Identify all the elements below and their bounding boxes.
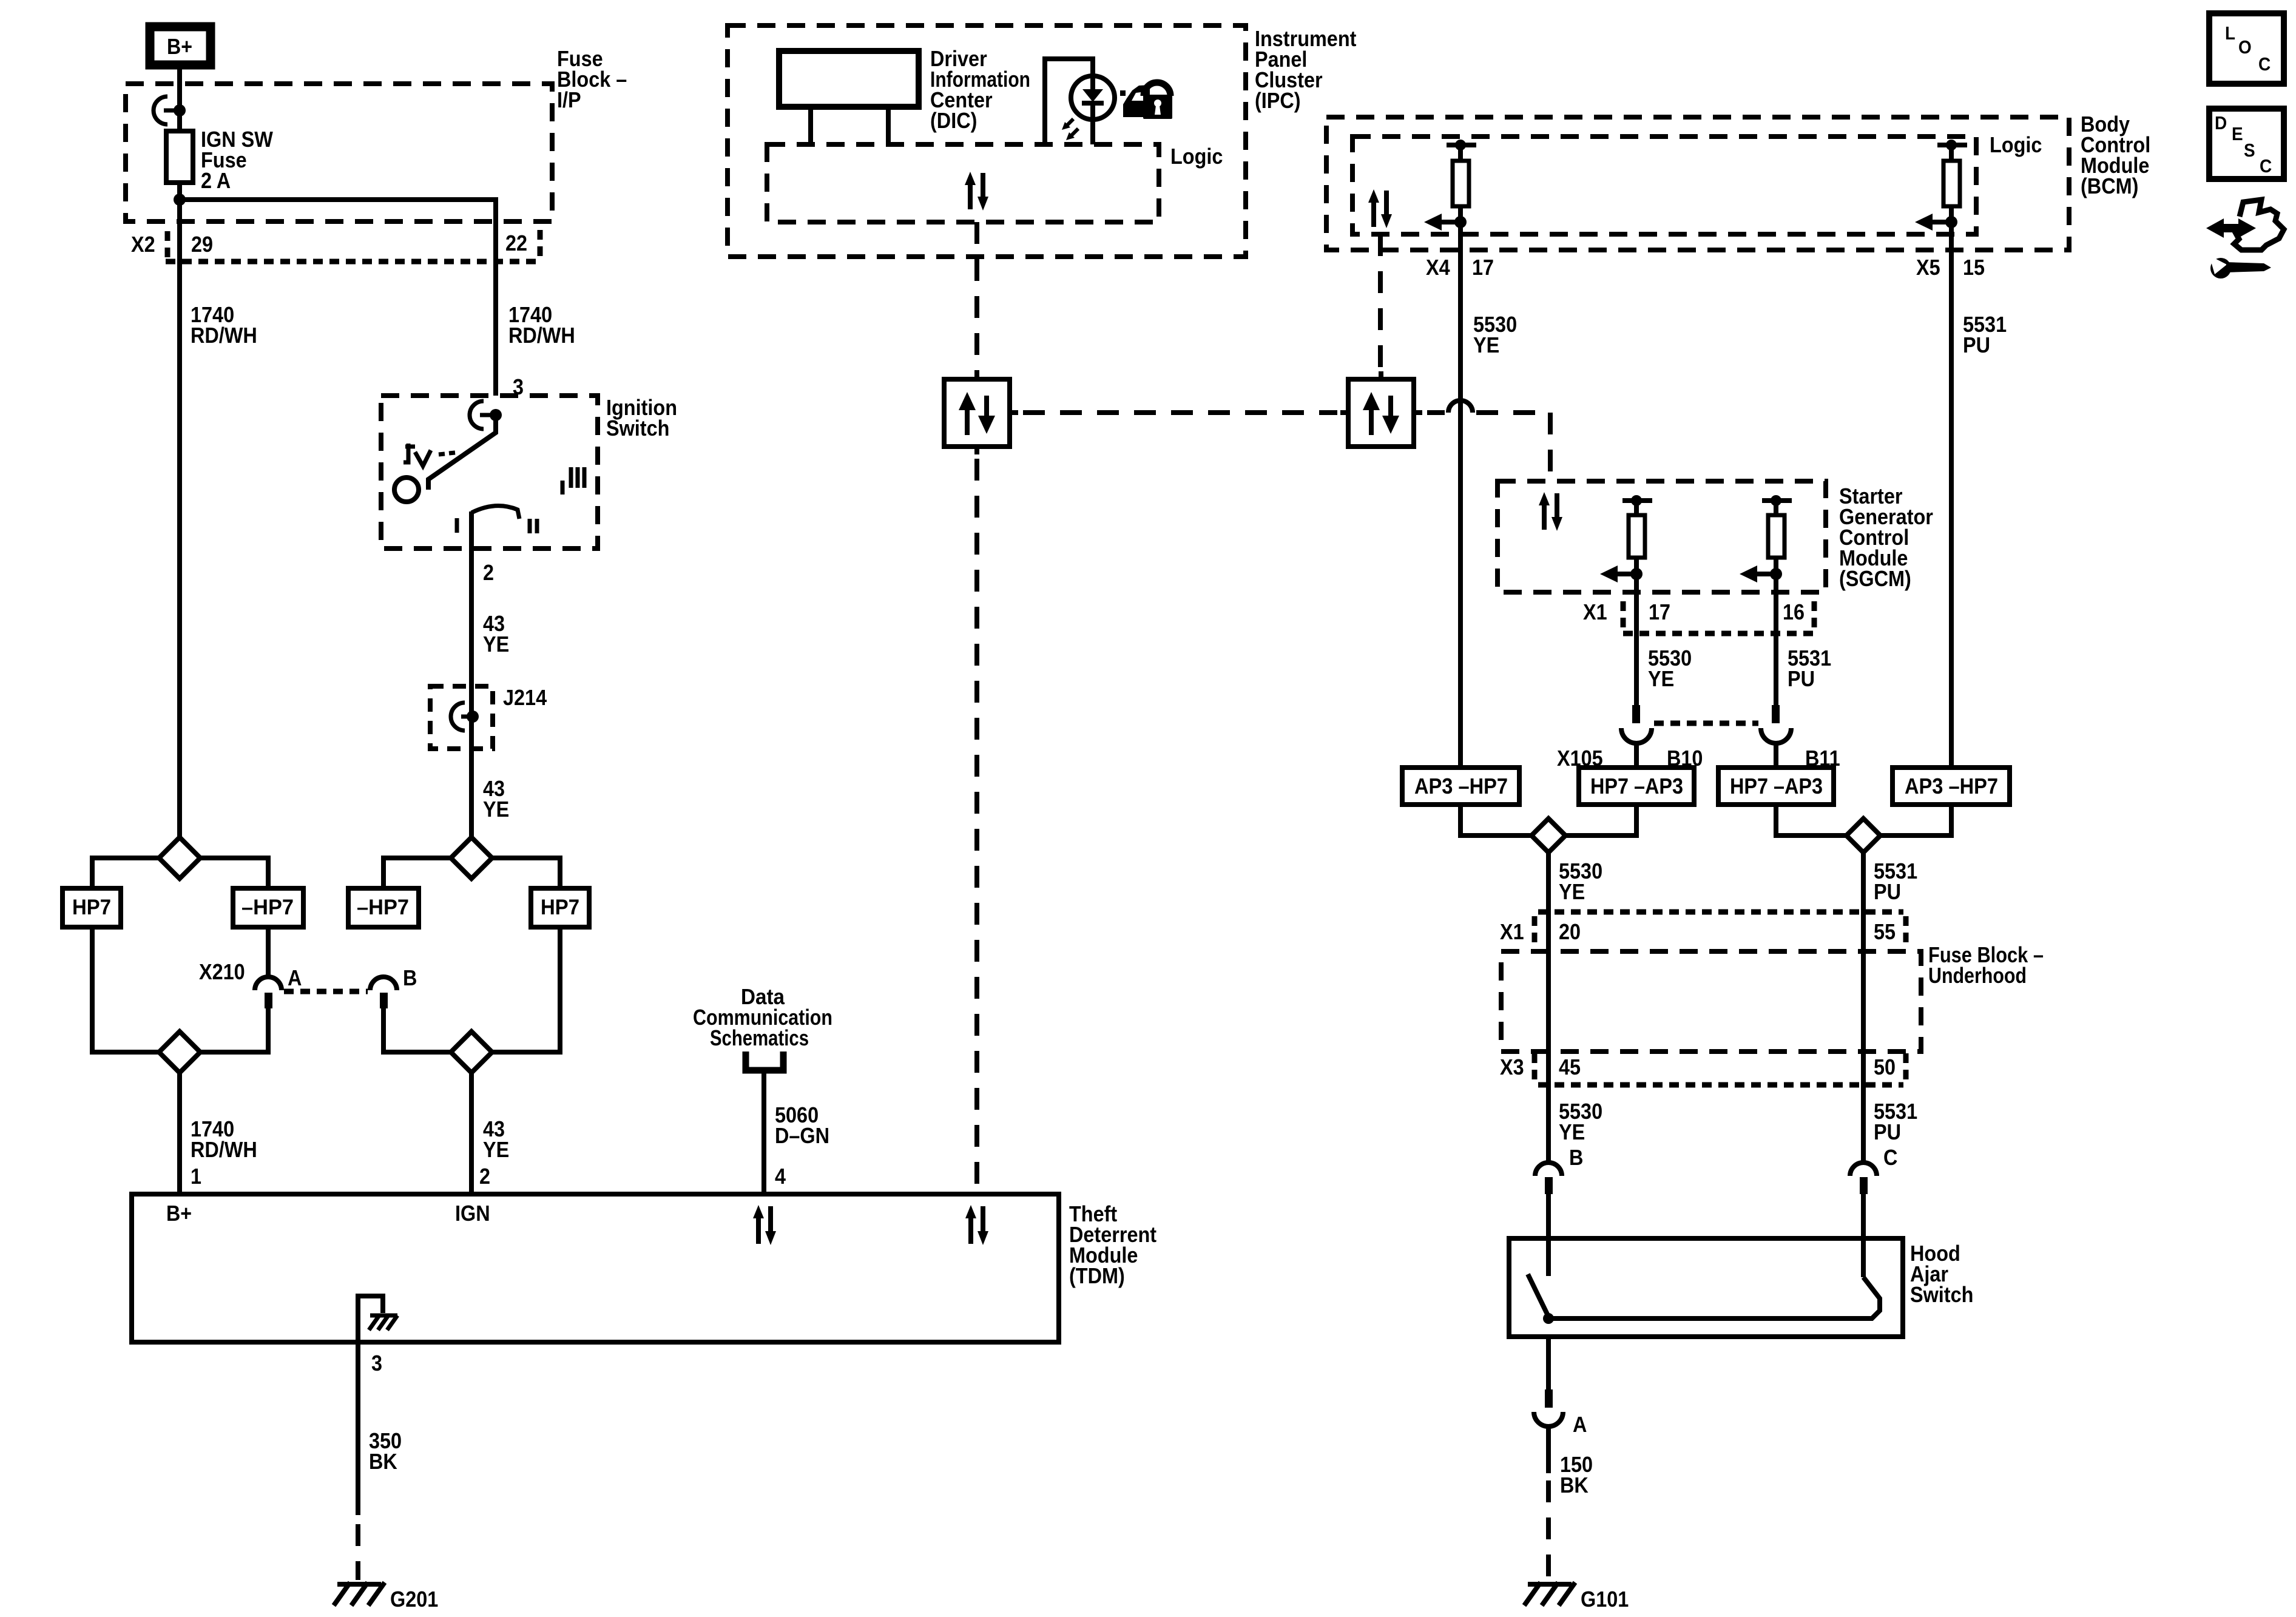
svg-text:B+: B+ bbox=[166, 1201, 192, 1226]
wire BCM X5-15 down bbox=[1949, 222, 1954, 768]
svg-text:2: 2 bbox=[483, 560, 494, 585]
wire A to lower diamond bbox=[200, 1008, 268, 1052]
svg-text:AP3 –HP7: AP3 –HP7 bbox=[1905, 774, 1998, 798]
position II marks bbox=[530, 519, 537, 533]
ignition switch clip bbox=[470, 401, 502, 429]
svg-text:Logic: Logic bbox=[1170, 144, 1223, 169]
wire HP7-AP3 to diamond bbox=[1565, 805, 1636, 836]
wire 5531 to underhood bbox=[1861, 852, 1866, 1163]
J214 clip bbox=[451, 703, 479, 731]
connector X4 labels bbox=[1426, 255, 1494, 280]
splice diamond right lower bbox=[451, 1031, 492, 1073]
output arrow BCM left bbox=[1424, 214, 1467, 231]
svg-text:IGN: IGN bbox=[455, 1201, 490, 1226]
svg-text:Schematics: Schematics bbox=[710, 1025, 809, 1050]
svg-text:C: C bbox=[2260, 155, 2272, 177]
svg-text:BK: BK bbox=[369, 1449, 397, 1474]
wire diamond to -HP7 b bbox=[383, 858, 451, 888]
svg-text:L: L bbox=[2225, 22, 2235, 44]
switch contact line to C bbox=[1548, 1277, 1880, 1318]
wire 5530 to underhood bbox=[1546, 852, 1551, 1163]
svg-text:B+: B+ bbox=[167, 34, 192, 59]
svg-text:1: 1 bbox=[191, 1164, 201, 1189]
wire B to lower diamond b bbox=[383, 1008, 451, 1052]
label Theft Deterrent Module (TDM) bbox=[1069, 1201, 1156, 1288]
wire DIC leg left bbox=[808, 107, 813, 144]
serial data arrows in SGCM bbox=[1539, 492, 1562, 531]
wire SGCM 16 down bbox=[1774, 574, 1778, 706]
svg-text:B: B bbox=[1569, 1145, 1583, 1170]
svg-text:X1: X1 bbox=[1500, 919, 1524, 944]
LOC reference box bbox=[2209, 13, 2284, 84]
splice diamond left lower bbox=[159, 1031, 200, 1073]
serial data arrows at pin 4 bbox=[753, 1205, 776, 1245]
theft deterrent module TDM box bbox=[132, 1194, 1059, 1342]
svg-text:20: 20 bbox=[1559, 919, 1581, 944]
connector terminal C bbox=[1850, 1163, 1877, 1194]
svg-text:G201: G201 bbox=[390, 1587, 438, 1612]
svg-text:Underhood: Underhood bbox=[1928, 963, 2027, 988]
splice diamond 5530 bbox=[1531, 819, 1565, 852]
svg-text:4: 4 bbox=[775, 1164, 786, 1189]
svg-text:55: 55 bbox=[1874, 919, 1896, 944]
dashed serial wire BCM down bbox=[1378, 234, 1383, 371]
svg-text:G101: G101 bbox=[1581, 1587, 1629, 1612]
connector X5 labels bbox=[1916, 255, 1985, 280]
ignition key icon bbox=[403, 444, 455, 466]
ground symbol G101 bbox=[1524, 1582, 1629, 1612]
wire diamond to HP7 b bbox=[492, 858, 560, 888]
pull-up resistor BCM left bbox=[1447, 140, 1476, 222]
serial data link box left bbox=[944, 371, 1018, 454]
junction node in fuse block bbox=[174, 194, 186, 206]
svg-text:45: 45 bbox=[1559, 1055, 1581, 1079]
svg-text:B: B bbox=[403, 965, 417, 990]
svg-text:X1: X1 bbox=[1583, 599, 1607, 624]
wire to TDM pin 1 bbox=[177, 1073, 182, 1194]
label Fuse Block - Underhood bbox=[1928, 942, 2044, 988]
car with lock icon bbox=[1120, 83, 1172, 119]
LED branch wires bbox=[1045, 59, 1093, 144]
harness box HP7 b bbox=[531, 888, 589, 927]
internal ground symbol TDM bbox=[356, 1296, 397, 1342]
starter generator control module SGCM dashed box bbox=[1497, 481, 1826, 592]
dashed serial wire to SGCM with hop bbox=[1427, 400, 1550, 481]
switch blade bbox=[1528, 1274, 1548, 1317]
wire diamond to -HP7 bbox=[200, 858, 268, 888]
connector X210 terminal A bbox=[255, 965, 302, 1008]
security indicator LED bbox=[1071, 76, 1115, 144]
svg-text:(BCM): (BCM) bbox=[2081, 174, 2138, 198]
svg-text:YE: YE bbox=[483, 1137, 509, 1162]
svg-text:D–GN: D–GN bbox=[775, 1123, 829, 1148]
harness box -HP7 bbox=[233, 888, 303, 927]
svg-text:15: 15 bbox=[1963, 255, 1985, 280]
ground symbol G201 bbox=[334, 1582, 438, 1612]
switch contact node bbox=[1543, 1313, 1554, 1324]
hood ajar switch box bbox=[1509, 1238, 1903, 1337]
svg-text:J214: J214 bbox=[503, 685, 547, 710]
pull-up resistor BCM right bbox=[1937, 140, 1967, 222]
LED emission arrows bbox=[1062, 119, 1078, 140]
dashed serial wire data link to TDM bbox=[974, 459, 979, 1194]
svg-text:C: C bbox=[1883, 1145, 1897, 1170]
wire left branch down bbox=[177, 200, 182, 839]
wire HP7 b down to lower diamond b bbox=[492, 927, 560, 1052]
svg-text:50: 50 bbox=[1874, 1055, 1896, 1079]
dashed connector line X210 bbox=[284, 989, 368, 994]
svg-text:(SGCM): (SGCM) bbox=[1839, 566, 1911, 591]
svg-text:–HP7: –HP7 bbox=[357, 896, 409, 919]
body control module BCM outer dashed box bbox=[1326, 117, 2069, 250]
serial data link box right bbox=[1340, 371, 1422, 447]
wire diamond to HP7 bbox=[92, 858, 159, 888]
svg-text:C: C bbox=[2258, 53, 2271, 75]
label Hood Ajar Switch bbox=[1910, 1241, 1973, 1307]
wire AP3-HP7 right to diamond bbox=[1880, 805, 1951, 836]
wire TDM pin 3 to ground bbox=[356, 1342, 360, 1515]
svg-text:RD/WH: RD/WH bbox=[508, 323, 575, 348]
wire AP3-HP7 to diamond bbox=[1460, 805, 1531, 836]
label Instrument Panel Cluster (IPC) bbox=[1255, 26, 1356, 113]
wire -HP7 down to X210 A bbox=[266, 927, 271, 976]
wire BCM X4-17 down bbox=[1458, 222, 1463, 768]
connector X105 terminal B11 bbox=[1761, 705, 1791, 768]
splice diamond right upper bbox=[451, 837, 492, 879]
wire SGCM 17 down bbox=[1634, 574, 1639, 706]
svg-text:AP3 –HP7: AP3 –HP7 bbox=[1414, 774, 1508, 798]
connector X2 row bbox=[131, 230, 540, 262]
fuse IGN SW Fuse 2A bbox=[166, 127, 273, 200]
hand with double arrow icon bbox=[2206, 200, 2284, 250]
IPC logic dashed box bbox=[767, 144, 1159, 222]
output arrow SGCM left bbox=[1600, 565, 1643, 582]
svg-text:29: 29 bbox=[191, 232, 213, 257]
harness box HP7 bbox=[62, 888, 121, 927]
wire junction to right branch bbox=[180, 200, 496, 396]
dashed connector line X105 bbox=[1654, 721, 1758, 726]
dashed serial wire IPC to data link box bbox=[974, 222, 979, 379]
ignition switch contact circle bbox=[394, 478, 419, 502]
pull-up resistor SGCM left bbox=[1622, 495, 1652, 574]
wire B into switch bbox=[1546, 1194, 1551, 1276]
svg-text:YE: YE bbox=[483, 797, 509, 822]
splice J214 dashed box bbox=[430, 686, 493, 749]
svg-text:HP7 –AP3: HP7 –AP3 bbox=[1590, 774, 1683, 798]
svg-text:E: E bbox=[2232, 123, 2243, 144]
svg-text:Switch: Switch bbox=[606, 416, 669, 441]
svg-text:X4: X4 bbox=[1426, 255, 1450, 280]
BCM logic inner dashed box bbox=[1352, 137, 1976, 234]
svg-text:HP7: HP7 bbox=[541, 896, 579, 919]
driver information center DIC box bbox=[779, 51, 919, 107]
svg-text:Logic: Logic bbox=[1990, 132, 2042, 157]
wire DIC leg right bbox=[886, 107, 891, 144]
svg-text:A: A bbox=[1573, 1412, 1587, 1437]
ignition switch dashed box bbox=[381, 396, 598, 549]
svg-text:YE: YE bbox=[1648, 666, 1674, 691]
svg-text:3: 3 bbox=[371, 1351, 382, 1376]
svg-text:YE: YE bbox=[483, 632, 509, 657]
serial data arrows in BCM bbox=[1368, 189, 1392, 228]
wrench icon bbox=[2209, 255, 2271, 279]
output arrow SGCM right bbox=[1740, 565, 1782, 582]
svg-text:PU: PU bbox=[1874, 1119, 1901, 1144]
svg-text:PU: PU bbox=[1788, 666, 1815, 691]
connector terminal B bbox=[1535, 1163, 1562, 1194]
instrument panel cluster IPC dashed box bbox=[728, 25, 1246, 257]
connector terminal A bbox=[1534, 1389, 1587, 1437]
svg-text:I/P: I/P bbox=[557, 87, 581, 112]
connector X105 terminal B10 bbox=[1621, 705, 1652, 768]
fuse block I/P dashed box bbox=[126, 84, 552, 221]
harness box AP3-HP7 right bbox=[1893, 768, 2010, 805]
DESC reference box bbox=[2209, 109, 2284, 179]
connector X210 terminal B bbox=[370, 965, 417, 1008]
label Data Communication Schematics bbox=[693, 984, 832, 1050]
harness box HP7-AP3 right bbox=[1718, 768, 1834, 805]
pull-up resistor SGCM right bbox=[1762, 495, 1792, 574]
ignition switch blade bbox=[428, 415, 496, 490]
splice diamond 5531 bbox=[1846, 819, 1880, 852]
svg-text:O: O bbox=[2238, 36, 2252, 58]
svg-text:YE: YE bbox=[1473, 333, 1499, 357]
dashed ground wire G101 bbox=[1546, 1480, 1551, 1580]
dashed serial wire between data link boxes bbox=[1023, 410, 1337, 415]
underhood connector X3 row bbox=[1500, 1053, 1906, 1085]
label Starter Generator Control Module (SGCM) bbox=[1839, 484, 1933, 591]
fuse block underhood dashed box bbox=[1501, 951, 1921, 1052]
labels X105 B10 B11 bbox=[1557, 746, 1840, 771]
svg-text:X210: X210 bbox=[199, 959, 245, 984]
svg-text:–HP7: –HP7 bbox=[241, 896, 294, 919]
svg-text:(DIC): (DIC) bbox=[930, 108, 977, 133]
harness box AP3-HP7 left bbox=[1402, 768, 1519, 805]
svg-text:(IPC): (IPC) bbox=[1255, 88, 1301, 113]
output arrow BCM right bbox=[1915, 214, 1957, 231]
svg-text:D: D bbox=[2215, 112, 2227, 133]
svg-text:16: 16 bbox=[1783, 599, 1805, 624]
fuse element clip symbol bbox=[154, 96, 186, 124]
svg-text:(TDM): (TDM) bbox=[1069, 1263, 1125, 1288]
rotation arc bbox=[471, 506, 519, 519]
serial data arrows in IPC logic bbox=[965, 172, 988, 211]
svg-text:PU: PU bbox=[1963, 333, 1990, 357]
svg-text:RD/WH: RD/WH bbox=[191, 1137, 257, 1162]
svg-text:HP7 –AP3: HP7 –AP3 bbox=[1730, 774, 1823, 798]
svg-text:RD/WH: RD/WH bbox=[191, 323, 257, 348]
wire HP7-AP3 right to diamond bbox=[1776, 805, 1846, 836]
svg-text:BK: BK bbox=[1560, 1473, 1589, 1497]
svg-text:A: A bbox=[288, 965, 302, 990]
svg-text:S: S bbox=[2244, 140, 2255, 161]
wire A down bbox=[1546, 1426, 1551, 1473]
svg-text:X5: X5 bbox=[1916, 255, 1940, 280]
svg-text:2 A: 2 A bbox=[201, 168, 231, 193]
harness box HP7-AP3 left bbox=[1579, 768, 1694, 805]
label Driver Information Center (DIC) bbox=[930, 46, 1030, 133]
connector X1 SGCM row bbox=[1583, 599, 1816, 633]
label Body Control Module (BCM) bbox=[2081, 112, 2150, 198]
svg-text:17: 17 bbox=[1649, 599, 1670, 624]
svg-text:YE: YE bbox=[1559, 1119, 1585, 1144]
wire to TDM pin 2 bbox=[469, 1073, 474, 1194]
wire C into switch bbox=[1861, 1194, 1866, 1277]
splice diamond left upper bbox=[159, 837, 200, 879]
dashed ground wire G201 bbox=[356, 1524, 360, 1580]
off-page connector bracket bbox=[746, 1052, 783, 1070]
svg-text:PU: PU bbox=[1874, 879, 1901, 904]
svg-text:2: 2 bbox=[479, 1164, 490, 1189]
svg-text:X2: X2 bbox=[131, 232, 155, 257]
wire B+ to fuse bbox=[177, 69, 182, 131]
wire 5060 to TDM pin 4 bbox=[761, 1073, 766, 1194]
wire HP7 down to lower diamond bbox=[92, 927, 159, 1052]
svg-text:22: 22 bbox=[505, 231, 527, 255]
svg-text:17: 17 bbox=[1472, 255, 1494, 280]
svg-text:Switch: Switch bbox=[1910, 1282, 1973, 1307]
underhood connector X1 row bbox=[1500, 912, 1906, 945]
position I mark bbox=[455, 518, 459, 533]
wire ignition switch output bbox=[469, 511, 474, 839]
serial data arrows at class 2 input bbox=[965, 1205, 988, 1245]
svg-text:YE: YE bbox=[1559, 879, 1585, 904]
svg-text:HP7: HP7 bbox=[72, 896, 111, 919]
position III marks bbox=[562, 467, 584, 495]
wire switch to terminal A bbox=[1546, 1337, 1551, 1391]
harness box -HP7 b bbox=[348, 888, 419, 927]
svg-text:X3: X3 bbox=[1500, 1055, 1524, 1079]
power symbol B+ bbox=[150, 27, 211, 65]
